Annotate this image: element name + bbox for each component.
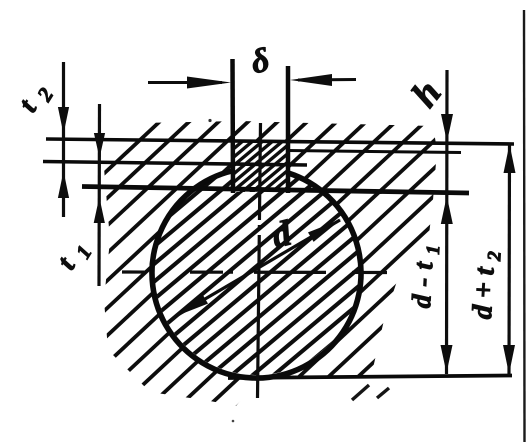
scan speckle (208, 119, 211, 122)
horizontal centerline (122, 270, 388, 274)
svg-text:h: h (403, 73, 449, 116)
svg-text:d+t2: d+t2 (467, 243, 506, 320)
hub hatching (0, 105, 531, 420)
page border line (right) (523, 10, 526, 442)
keyway slot right side / b extension line (286, 66, 291, 193)
keyway slot bottom line C (82, 187, 469, 194)
key cross-section hatching (113, 135, 401, 200)
dimension t1: vertical dimension line (97, 104, 101, 286)
dimension h / d-t1 shared vertical dimension line (445, 70, 449, 374)
dimension b: right dimension line (298, 78, 356, 82)
key top extension line (right) (288, 151, 461, 153)
dimension b: left dimension line (148, 81, 222, 84)
scan speckle (232, 420, 235, 423)
dimension t2: vertical dimension line (62, 62, 65, 217)
svg-text:t2: t2 (13, 69, 64, 121)
svg-text:δ: δ (248, 42, 273, 82)
dimension d+t2: vertical dimension line (507, 143, 511, 375)
shaft surface tangent line B (43, 162, 307, 166)
keyway slot top line A (hub slot top) (46, 139, 514, 144)
vertical centerline (258, 123, 261, 398)
shaft circle hatching (0, 155, 531, 395)
stray hatch stroke below bottom line (352, 385, 369, 400)
stray dash below bottom line (377, 388, 389, 398)
svg-text:t1: t1 (51, 226, 102, 278)
shaft bottom tangent line (228, 376, 512, 379)
shaft circle (cut by keyway slot) (152, 171, 361, 378)
diameter d arrow line (176, 220, 340, 316)
svg-text:d-t1: d-t1 (406, 236, 445, 309)
keyway slot left side / b extension line (230, 59, 235, 193)
